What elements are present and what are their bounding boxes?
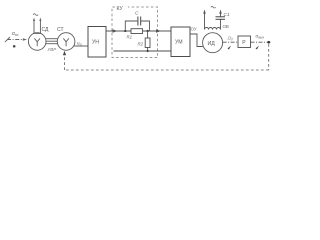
amplifier UM box: [171, 27, 190, 57]
node stray mark: [13, 45, 16, 48]
capacitor C1: [220, 19, 222, 29]
wire ST to UN: [74, 45, 89, 47]
node junction R2-rail: [147, 50, 149, 52]
wire motor shaft: [223, 41, 238, 43]
inductor OV field winding: [205, 28, 221, 30]
svg-text:R1: R1: [127, 35, 133, 40]
capacitor C branch: [125, 21, 149, 31]
wire feedback dashed: [65, 44, 269, 70]
wire UN output: [106, 30, 131, 32]
wire shaft tick right: [256, 46, 260, 50]
svg-text:КУ: КУ: [117, 6, 124, 12]
svg-text:ОВ: ОВ: [223, 24, 229, 29]
node AC mark: [33, 14, 38, 16]
wire OV left supply lead: [204, 12, 206, 30]
wire output shaft: [251, 41, 273, 43]
gearbox R box: [238, 36, 251, 48]
wire arrowhead into UM: [156, 29, 161, 32]
wire synchro link 3 lines: [46, 39, 58, 44]
amplifier UN box: [88, 27, 106, 58]
transformer ST (selsyn-transformator): [57, 33, 75, 51]
svg-text:ИД: ИД: [208, 41, 216, 47]
node junction A: [124, 30, 126, 32]
wire arrowhead into KU: [113, 29, 118, 32]
svg-text:ОУ: ОУ: [191, 27, 197, 32]
svg-text:R2: R2: [138, 42, 144, 47]
resistor R2: [147, 31, 149, 38]
wire R1 to node B: [143, 30, 172, 32]
wire SD supply arrowheads: [33, 18, 35, 22]
svg-text:УМ: УМ: [175, 40, 183, 46]
svg-text:СТ: СТ: [57, 27, 64, 33]
dashed box KU: [112, 7, 158, 58]
wire input shaft: [5, 37, 25, 42]
node junction B: [147, 30, 149, 32]
node input label alpha_vx: [12, 31, 19, 37]
node junction output: [267, 41, 270, 44]
resistor R1: [131, 29, 143, 34]
capacitor C plates: [138, 17, 141, 26]
motor ID: [203, 33, 223, 53]
svg-text:С1: С1: [224, 12, 230, 18]
wire UM to motor armature: [190, 34, 203, 47]
svg-text:УВР: УВР: [48, 47, 57, 52]
svg-text:УН: УН: [92, 40, 99, 46]
wire shaft tick left: [228, 46, 232, 50]
svg-text:СД: СД: [42, 27, 50, 33]
transformer SD (selsyn-datchik): [28, 33, 46, 51]
wire input arrowhead: [23, 38, 27, 41]
wire feedback arrowhead: [63, 51, 66, 55]
wire bottom rail: [114, 50, 172, 52]
wire SD excitation leads: [33, 20, 41, 34]
node AC mark top: [211, 6, 216, 8]
svg-text:C: C: [135, 11, 139, 17]
